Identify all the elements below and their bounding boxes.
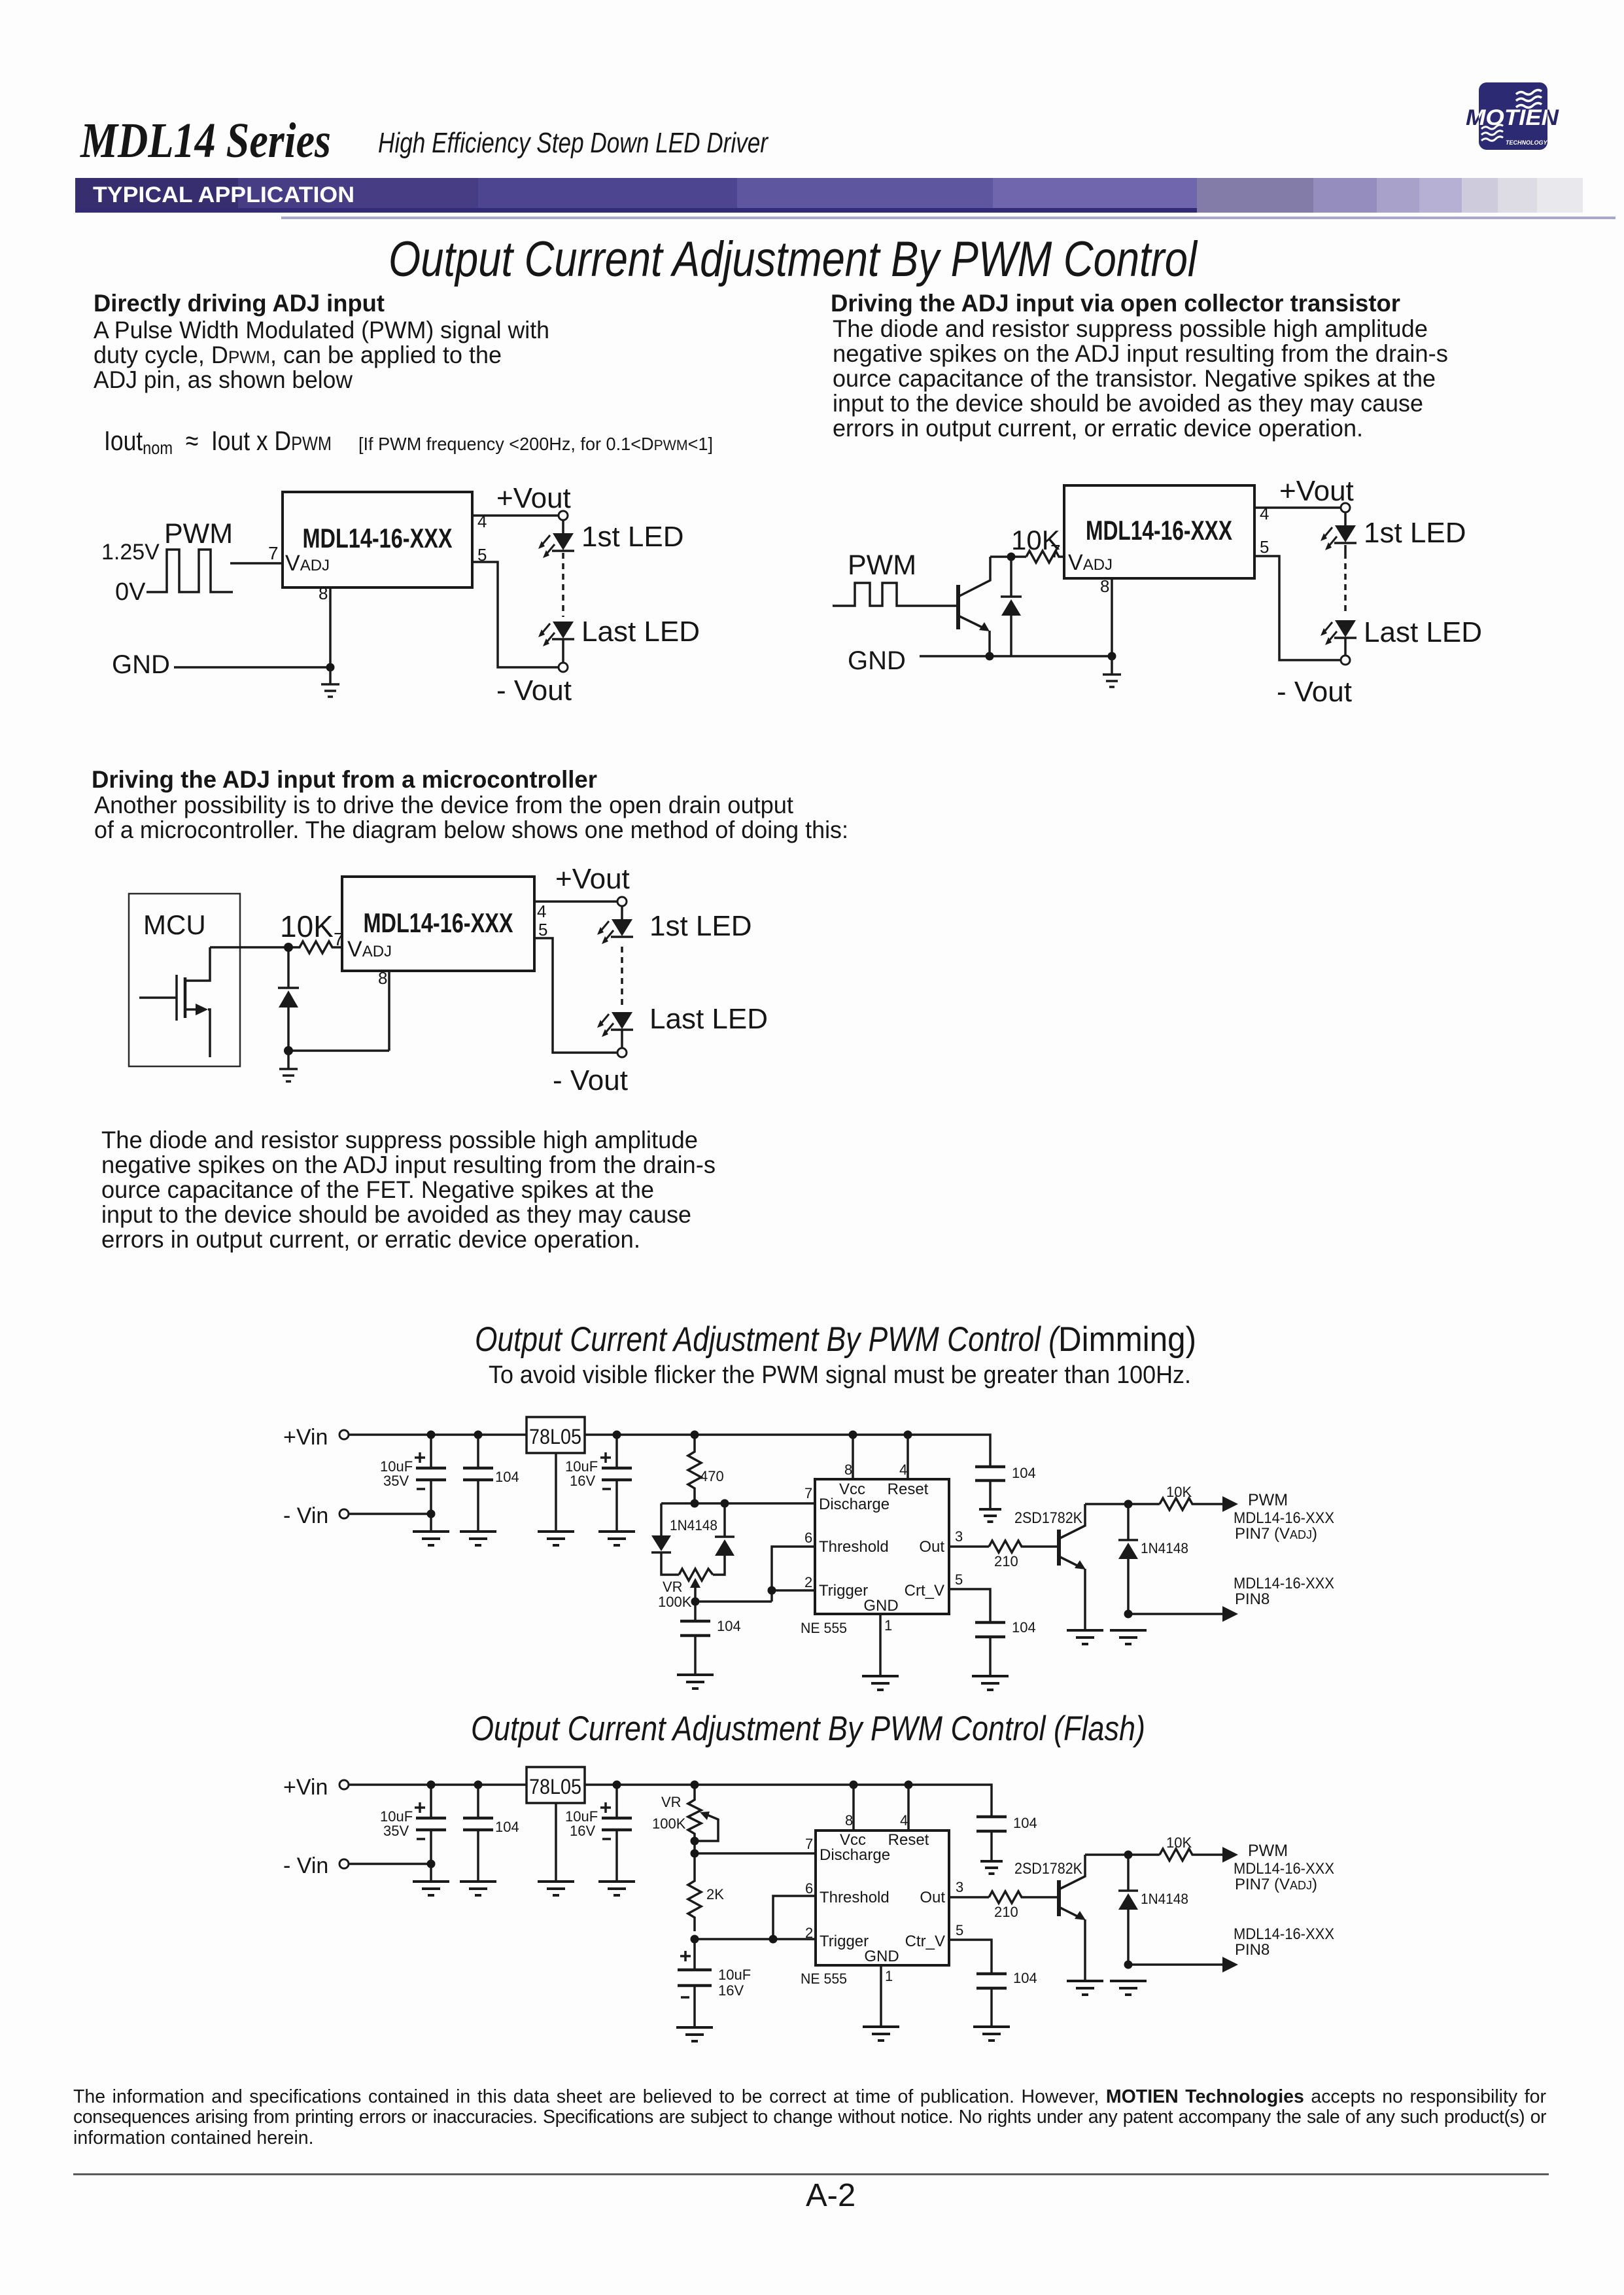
resistor R1 10K <box>1026 551 1067 563</box>
LED last <box>597 1012 633 1037</box>
ground 78L05 <box>538 1882 574 1895</box>
svg-text:+Vout: +Vout <box>1279 475 1354 507</box>
svg-text:100K: 100K <box>652 1815 686 1832</box>
wire pin 4 to +Vout <box>472 514 559 517</box>
svg-text:6: 6 <box>805 1880 813 1897</box>
wire trigger pin <box>772 1589 815 1592</box>
capacitor C4 104 <box>694 1602 697 1621</box>
svg-text:7: 7 <box>268 543 279 563</box>
capacitor C5 104 top right <box>975 1465 1005 1469</box>
svg-text:- Vin: - Vin <box>283 1853 328 1878</box>
ground C3 <box>598 1532 635 1545</box>
ground C4 <box>677 1675 714 1689</box>
svg-text:210: 210 <box>994 1904 1018 1920</box>
ground C6 <box>972 1676 1009 1690</box>
svg-text:MOTIEN: MOTIEN <box>1466 105 1560 130</box>
ground <box>279 1051 298 1081</box>
PWM waveform <box>147 550 233 592</box>
svg-text:100K: 100K <box>658 1594 692 1610</box>
page number A-2 <box>806 2177 855 2214</box>
node -Vout <box>559 663 568 672</box>
ground C5 <box>979 1509 1001 1522</box>
svg-text:GND: GND <box>848 646 906 675</box>
transistor Q2 base bar <box>1057 1530 1061 1566</box>
svg-text:GND: GND <box>863 1597 898 1615</box>
capacitor C9 polarity + <box>600 1802 611 1813</box>
svg-text:104: 104 <box>495 1819 519 1835</box>
svg-text:1: 1 <box>884 1617 892 1634</box>
svg-text:Discharge: Discharge <box>820 1846 890 1864</box>
wire <box>621 1030 623 1048</box>
FET Q1 source <box>185 1008 196 1011</box>
capacitor C10 10uF/16V <box>693 1939 696 1970</box>
svg-text:errors in output current, or e: errors in output current, or erratic dev… <box>101 1226 640 1253</box>
svg-text:negative spikes on the ADJ inp: negative spikes on the ADJ input resulti… <box>101 1151 716 1178</box>
svg-text:1.25V: 1.25V <box>101 540 160 565</box>
svg-text:5: 5 <box>538 920 547 939</box>
wire emitter down <box>1084 1569 1086 1630</box>
wire trigger row <box>695 1938 816 1940</box>
svg-text:of a microcontroller. The diag: of a microcontroller. The diagram below … <box>94 816 848 843</box>
svg-text:TECHNOLOGY: TECHNOLOGY <box>1506 139 1547 146</box>
junction node <box>1007 553 1016 561</box>
wire gnd pin1 <box>879 1614 882 1676</box>
wire discharge net <box>695 1852 816 1855</box>
diode D1 lead bottom <box>1010 616 1012 656</box>
wire 78L05 gnd <box>555 1803 557 1882</box>
ground <box>1103 656 1121 687</box>
svg-text:10K: 10K <box>280 909 334 943</box>
wire +Vin rail <box>349 1433 527 1436</box>
svg-text:MDL14-16-XXX: MDL14-16-XXX <box>1234 1925 1334 1943</box>
diode D3 1N4148 <box>715 1537 734 1556</box>
svg-text:TYPICAL APPLICATION: TYPICAL APPLICATION <box>93 183 354 207</box>
wire base <box>912 604 957 607</box>
svg-text:7: 7 <box>334 929 344 949</box>
svg-text:High Efficiency Step Down LED: High Efficiency Step Down LED Driver <box>378 127 769 159</box>
ground C2 <box>460 1532 496 1545</box>
svg-text:6: 6 <box>804 1530 812 1546</box>
ground C8 <box>460 1882 496 1895</box>
resistor R2 470 <box>688 1435 701 1503</box>
svg-text:104: 104 <box>1012 1465 1036 1481</box>
module U1 box <box>342 877 534 971</box>
ground pin1 <box>863 2027 899 2041</box>
wire pin8 out row <box>1128 1963 1223 1966</box>
svg-text:Ctr_V: Ctr_V <box>905 1933 945 1950</box>
wire <box>621 906 623 919</box>
arrow output PWM <box>1222 1496 1238 1512</box>
wire node to resistor <box>990 555 1026 558</box>
ground C10 <box>676 2027 713 2041</box>
capacitor C10 polarity - <box>681 1996 689 1999</box>
LED 1st <box>597 919 633 944</box>
wire ctr_v <box>949 1940 992 1974</box>
module U1 MDL14-16-XXX <box>283 492 472 587</box>
capacitor C3 10uF/16V <box>615 1435 618 1468</box>
svg-text:MDL14-16-XXX: MDL14-16-XXX <box>1086 515 1232 546</box>
svg-text:PWM: PWM <box>1248 1842 1288 1860</box>
wiper wire <box>694 1586 697 1602</box>
transistor Q3 base bar <box>1057 1880 1061 1916</box>
svg-text:104: 104 <box>1013 1815 1037 1831</box>
wire emitter down <box>1084 1919 1086 1981</box>
wire GND rail <box>920 655 1112 657</box>
svg-text:4: 4 <box>537 902 546 921</box>
svg-text:4: 4 <box>900 1812 908 1829</box>
svg-text:16V: 16V <box>718 1982 744 1999</box>
svg-text:VR: VR <box>661 1794 682 1810</box>
potentiometer VR2 100K <box>688 1785 701 1853</box>
regulator U4 78L05 <box>527 1767 585 1803</box>
node +Vout <box>1341 503 1350 512</box>
arrow output PWM <box>1222 1847 1238 1863</box>
wiper bracket <box>695 1815 718 1841</box>
svg-text:8: 8 <box>845 1812 853 1829</box>
svg-text:Output Current Adjustment By P: Output Current Adjustment By PWM Control… <box>475 1320 1061 1359</box>
node +Vout <box>559 511 568 520</box>
svg-text:104: 104 <box>1012 1619 1036 1636</box>
svg-text:Reset: Reset <box>888 1480 929 1498</box>
capacitor C1 polarity - <box>417 1488 425 1490</box>
svg-text:104: 104 <box>1013 1970 1037 1986</box>
ground D4 <box>1110 1630 1147 1644</box>
svg-text:[If PWM frequency <200Hz, for: [If PWM frequency <200Hz, for 0.1<DPWM<1… <box>358 434 713 454</box>
svg-text:0V: 0V <box>115 578 146 606</box>
svg-text:Ioutnom ≈ Iout x DPWM: Ioutnom ≈ Iout x DPWM <box>104 425 332 458</box>
svg-text:5: 5 <box>956 1922 963 1938</box>
svg-text:- Vout: - Vout <box>1277 676 1352 708</box>
wire pin 8 <box>329 587 332 667</box>
footer paragraph <box>73 2087 1546 2107</box>
wire <box>1344 512 1347 525</box>
resistor R7 10K <box>1160 1849 1223 1861</box>
wire crt_v <box>949 1589 990 1622</box>
FET Q1 gate lead <box>139 996 177 999</box>
svg-text:8: 8 <box>1100 576 1109 596</box>
node -Vin <box>339 1859 349 1868</box>
svg-text:8: 8 <box>378 968 387 988</box>
wire gnd row <box>288 1049 389 1052</box>
wire threshold <box>772 1547 815 1602</box>
diode D1 <box>278 988 299 1007</box>
LED 1st <box>538 533 574 558</box>
resistor R6 210 <box>989 1891 1059 1903</box>
svg-text:A Pulse Width Modulated (PWM): A Pulse Width Modulated (PWM) signal wit… <box>94 317 549 343</box>
svg-text:3: 3 <box>956 1879 963 1895</box>
wire <box>1344 638 1347 656</box>
svg-text:Threshold: Threshold <box>819 1538 889 1556</box>
svg-text:ource capacitance of the trans: ource capacitance of the transistor. Neg… <box>833 365 1436 392</box>
wire <box>562 520 564 533</box>
ground C11 <box>980 1861 1003 1874</box>
LED last <box>1321 620 1356 645</box>
svg-text:78L05: 78L05 <box>529 1775 581 1798</box>
capacitor C11 104 top right <box>976 1815 1007 1819</box>
junction node <box>284 943 293 952</box>
svg-text:errors in output current, or e: errors in output current, or erratic dev… <box>833 415 1363 442</box>
FET Q1 channel bar <box>184 977 187 1018</box>
arrow output PIN8 <box>1222 1606 1238 1622</box>
svg-text:35V: 35V <box>383 1823 409 1839</box>
transistor Q2 collector <box>1059 1504 1085 1539</box>
wire discharge net <box>661 1502 815 1505</box>
wire pin 8 <box>852 1435 854 1479</box>
svg-text:8: 8 <box>319 584 328 603</box>
transistor Q1 collector <box>958 557 990 597</box>
diode D5 1N4148 <box>1118 1891 1138 1910</box>
ground C7 <box>413 1882 449 1895</box>
svg-text:GND: GND <box>864 1948 899 1965</box>
svg-text:Last LED: Last LED <box>1364 616 1482 648</box>
transistor Q1 base bar <box>956 585 960 629</box>
svg-text:Trigger: Trigger <box>820 1933 869 1950</box>
svg-text:5: 5 <box>1260 537 1269 557</box>
emitter arrowhead Q3 <box>1075 1911 1086 1920</box>
wire -Vin <box>349 1513 431 1515</box>
wire pin8 out row <box>1128 1613 1223 1615</box>
capacitor C3 polarity - <box>602 1488 611 1490</box>
ground pin1 <box>862 1676 899 1690</box>
svg-text:1: 1 <box>885 1968 893 1984</box>
svg-text:1st LED: 1st LED <box>1364 517 1466 549</box>
wire pin 4 <box>1254 506 1341 509</box>
logo waves top right <box>1516 90 1542 108</box>
svg-text:5: 5 <box>477 545 487 565</box>
wire -Vout to pin 5 <box>472 562 559 667</box>
diode D4 1N4148 <box>1118 1540 1138 1559</box>
svg-text:PIN7 (VADJ): PIN7 (VADJ) <box>1235 1876 1317 1893</box>
svg-text:input to the device should be: input to the device should be avoided as… <box>101 1201 691 1228</box>
wire collector row <box>1085 1503 1160 1505</box>
svg-text:10uF: 10uF <box>718 1967 751 1983</box>
svg-text:PWM: PWM <box>848 550 916 581</box>
junction dots dimming <box>427 1431 436 1439</box>
potentiometer VR 100K <box>679 1569 713 1581</box>
diode D2 1N4148 <box>651 1535 671 1552</box>
module U1 MDL14-16-XXX <box>1064 485 1254 578</box>
ground Q3 <box>1067 1981 1103 1995</box>
svg-text:1N4148: 1N4148 <box>1141 1891 1188 1907</box>
FET Q1 gate bar <box>175 975 178 1021</box>
svg-text:Crt_V: Crt_V <box>905 1582 944 1600</box>
svg-text:470: 470 <box>700 1468 724 1484</box>
svg-text:Out: Out <box>919 1538 944 1556</box>
resistor R5 2K <box>688 1853 701 1931</box>
svg-text:PIN7 (VADJ): PIN7 (VADJ) <box>1235 1525 1317 1543</box>
svg-text:2SD1782K: 2SD1782K <box>1014 1860 1082 1878</box>
capacitor C2 104 <box>477 1435 479 1468</box>
wire emitter to gnd <box>988 631 991 656</box>
potentiometer wiper arrow <box>690 1578 700 1588</box>
svg-text:To avoid visible flicker the P: To avoid visible flicker the PWM signal … <box>489 1361 1191 1389</box>
transistor Q3 emitter <box>1059 1907 1081 1918</box>
svg-text:210: 210 <box>994 1553 1018 1569</box>
capacitor C7 polarity + <box>415 1802 425 1813</box>
junction emitter <box>986 652 994 661</box>
svg-text:Discharge: Discharge <box>819 1496 890 1513</box>
capacitor C10 polarity + <box>680 1951 691 1961</box>
svg-text:1st LED: 1st LED <box>649 910 752 942</box>
wire source down <box>208 1009 210 1057</box>
capacitor C8 104 <box>477 1785 479 1818</box>
ground C12 <box>973 2027 1010 2041</box>
svg-text:78L05: 78L05 <box>529 1425 581 1448</box>
svg-text:MCU: MCU <box>143 909 206 940</box>
arrow output PIN8 <box>1222 1957 1238 1972</box>
diode D4 leads <box>1127 1504 1130 1539</box>
wire rail after 78L05 <box>585 1435 990 1467</box>
svg-text:Out: Out <box>920 1889 945 1906</box>
svg-text:10K: 10K <box>1166 1834 1192 1851</box>
wire to pin 7 <box>230 562 283 565</box>
svg-text:NE 555: NE 555 <box>801 1971 847 1987</box>
ground Q2 <box>1067 1630 1103 1644</box>
FET Q1 drain <box>185 947 210 981</box>
wire GND <box>174 666 330 669</box>
wire out pin3 <box>949 1896 989 1899</box>
regulator U2 78L05 <box>527 1417 585 1453</box>
capacitor C7 10uF/35V <box>430 1785 432 1818</box>
svg-text:MDL14 Series: MDL14 Series <box>80 113 331 168</box>
svg-text:Directly driving ADJ input: Directly driving ADJ input <box>94 290 385 317</box>
svg-text:Last LED: Last LED <box>649 1003 768 1035</box>
svg-text:2: 2 <box>805 1925 813 1941</box>
capacitor C6 104 <box>975 1621 1005 1624</box>
svg-text:- Vin: - Vin <box>283 1503 328 1528</box>
timer U3 NE555 <box>815 1479 949 1614</box>
svg-text:Driving the ADJ input from a m: Driving the ADJ input from a microcontro… <box>92 766 597 793</box>
wire dashed <box>621 947 623 1007</box>
wire dashed LED string <box>1344 545 1347 616</box>
diode D1 1N4148 <box>1001 597 1022 616</box>
svg-text:16V: 16V <box>570 1823 595 1839</box>
wire -Vin <box>349 1863 431 1865</box>
wire 78L05 gnd <box>555 1453 557 1532</box>
svg-text:GND: GND <box>112 650 170 679</box>
svg-text:7: 7 <box>804 1485 812 1501</box>
svg-text:+Vout: +Vout <box>555 863 630 895</box>
svg-text:Trigger: Trigger <box>819 1582 868 1600</box>
wire dashed LED string <box>562 553 564 617</box>
diode D2 leads <box>660 1503 663 1535</box>
svg-text:The diode and resistor suppres: The diode and resistor suppress possible… <box>101 1127 698 1153</box>
svg-text:3: 3 <box>955 1528 963 1545</box>
junction pin8 <box>1108 652 1116 661</box>
logo waves bottom left <box>1481 125 1503 141</box>
junction dots flash <box>427 1781 436 1789</box>
svg-text:2SD1782K: 2SD1782K <box>1014 1509 1082 1527</box>
svg-text:input to the device should be: input to the device should be avoided as… <box>833 390 1423 417</box>
node +Vin <box>339 1780 349 1789</box>
diode D3 leads <box>723 1503 726 1537</box>
svg-text:VR: VR <box>663 1579 683 1595</box>
ground 78L05 <box>538 1532 574 1545</box>
wire pin 4 <box>907 1435 909 1479</box>
footer rule <box>73 2173 1549 2175</box>
transistor Q2 emitter <box>1059 1556 1081 1568</box>
LED 1st <box>1321 525 1356 550</box>
svg-text:1N4148: 1N4148 <box>670 1517 717 1533</box>
svg-text:2K: 2K <box>706 1886 724 1902</box>
svg-text:Dimming): Dimming) <box>1058 1320 1196 1359</box>
svg-text:The diode and resistor suppres: The diode and resistor suppress possible… <box>833 315 1428 342</box>
svg-text:35V: 35V <box>383 1473 409 1489</box>
wire <box>562 639 564 663</box>
node +Vin <box>339 1430 349 1439</box>
svg-text:PIN8: PIN8 <box>1235 1590 1270 1608</box>
svg-text:1N4148: 1N4148 <box>1141 1540 1188 1556</box>
svg-text:- Vout: - Vout <box>496 674 572 707</box>
capacitor C1 polarity + <box>415 1452 425 1463</box>
wire pin 4 <box>534 900 617 903</box>
svg-text:ource capacitance of the FET.: ource capacitance of the FET. Negative s… <box>101 1176 654 1203</box>
svg-text:Another possibility is to driv: Another possibility is to drive the devi… <box>94 792 794 818</box>
junction gnd <box>284 1046 293 1055</box>
wire drain to node <box>210 946 288 949</box>
capacitor C9 10uF/16V <box>615 1785 618 1818</box>
svg-text:duty cycle, DPWM, can be appli: duty cycle, DPWM, can be applied to the <box>94 342 502 368</box>
wire pin 8 <box>852 1785 855 1831</box>
node -Vout <box>1341 656 1350 665</box>
svg-text:negative spikes on the ADJ inp: negative spikes on the ADJ input resulti… <box>833 340 1448 367</box>
wire collector row <box>1085 1853 1160 1856</box>
wire out pin3 <box>949 1545 989 1548</box>
svg-text:2: 2 <box>804 1574 812 1590</box>
ground C1 <box>413 1532 449 1545</box>
ground <box>321 667 339 697</box>
wire -Vout to pin 5 <box>1254 556 1341 660</box>
svg-text:MDL14-16-XXX: MDL14-16-XXX <box>1234 1575 1334 1592</box>
svg-text:Last LED: Last LED <box>581 616 700 648</box>
svg-text:Driving the ADJ input via open: Driving the ADJ input via open collector… <box>831 290 1400 317</box>
transistor Q1 emitter <box>958 616 985 629</box>
svg-text:+Vin: +Vin <box>283 1775 328 1800</box>
svg-text:4: 4 <box>899 1462 907 1478</box>
LED last <box>538 622 574 646</box>
dashed wire redraw <box>1344 553 1347 616</box>
FET source arrowhead <box>196 1004 208 1015</box>
potentiometer VR2 wiper arrowhead <box>700 1812 710 1820</box>
svg-text:- Vout: - Vout <box>553 1064 628 1096</box>
junction <box>326 663 335 672</box>
resistor R3 210 <box>989 1541 1059 1552</box>
svg-text:PIN8: PIN8 <box>1235 1941 1270 1959</box>
wire threshold <box>773 1896 816 1939</box>
emitter arrowhead <box>979 622 990 631</box>
emitter arrowhead Q2 <box>1075 1560 1086 1569</box>
wire -Vout to pin5 <box>534 938 617 1053</box>
ground D5 <box>1110 1981 1147 1995</box>
timer U5 NE555 <box>816 1831 949 1965</box>
svg-text:4: 4 <box>1260 504 1269 523</box>
resistor R4 10K <box>1160 1498 1223 1510</box>
wire trigger row <box>695 1600 772 1603</box>
svg-text:MDL14-16-XXX: MDL14-16-XXX <box>1234 1509 1334 1527</box>
svg-text:ADJ pin, as shown below: ADJ pin, as shown below <box>94 366 353 393</box>
svg-text:PWM: PWM <box>164 518 233 550</box>
wire pin 4 <box>907 1785 910 1831</box>
wire +Vin rail <box>349 1783 527 1786</box>
svg-text:MDL14-16-XXX: MDL14-16-XXX <box>364 907 513 938</box>
node +Vout <box>617 897 627 906</box>
svg-text:104: 104 <box>717 1618 741 1634</box>
diode D1 leads <box>287 947 290 987</box>
wire rail after 78L05 <box>585 1785 992 1817</box>
svg-text:5: 5 <box>955 1571 963 1588</box>
wire pin 8 <box>1111 578 1113 656</box>
svg-text:Output Current Adjustment By P: Output Current Adjustment By PWM Control… <box>471 1709 1145 1748</box>
